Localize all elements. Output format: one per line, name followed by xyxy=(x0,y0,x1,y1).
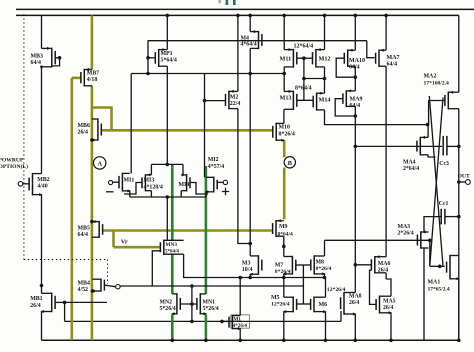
svg-text:Cc1: Cc1 xyxy=(439,201,449,207)
svg-text:M13: M13 xyxy=(280,95,292,102)
svg-text:12*26/4: 12*26/4 xyxy=(271,302,290,308)
svg-text:POWRUP: POWRUP xyxy=(0,158,24,164)
svg-text:12*26/4: 12*26/4 xyxy=(327,287,346,293)
svg-text:MA1: MA1 xyxy=(428,280,441,286)
svg-text:64/4: 64/4 xyxy=(350,103,361,109)
svg-text:MP1: MP1 xyxy=(161,51,173,57)
svg-text:22/4: 22/4 xyxy=(230,101,241,107)
svg-text:MA7: MA7 xyxy=(387,55,400,61)
svg-text:5*26/4: 5*26/4 xyxy=(160,306,176,312)
svg-text:MB6: MB6 xyxy=(78,123,90,129)
svg-text:MA8: MA8 xyxy=(349,294,362,300)
svg-text:MN1: MN1 xyxy=(203,300,216,306)
svg-text:10/4: 10/4 xyxy=(242,267,253,273)
svg-text:M6: M6 xyxy=(319,302,328,308)
svg-text:2*64/4: 2*64/4 xyxy=(403,166,419,172)
svg-text:4*64/4: 4*64/4 xyxy=(241,42,257,48)
svg-text:MB1: MB1 xyxy=(30,296,42,302)
svg-text:64/4: 64/4 xyxy=(31,60,42,66)
svg-text:5*64/4: 5*64/4 xyxy=(161,58,177,64)
svg-text:M1: M1 xyxy=(233,317,241,323)
svg-text:MN2: MN2 xyxy=(160,300,173,306)
svg-text:4/18: 4/18 xyxy=(87,77,98,83)
svg-text:8*64/4: 8*64/4 xyxy=(278,231,294,237)
svg-text:OUT: OUT xyxy=(458,174,471,180)
svg-text:MB2: MB2 xyxy=(37,177,49,183)
svg-text:M2: M2 xyxy=(230,95,239,101)
svg-text:M7: M7 xyxy=(275,262,284,268)
svg-text:MA4: MA4 xyxy=(403,160,416,166)
svg-text:M10: M10 xyxy=(279,125,291,131)
svg-text:26/4: 26/4 xyxy=(378,268,388,274)
svg-text:26/4: 26/4 xyxy=(349,300,359,306)
svg-text:MA6: MA6 xyxy=(378,261,391,267)
svg-text:5*64/4: 5*64/4 xyxy=(165,250,179,255)
svg-text:M14: M14 xyxy=(319,97,331,104)
svg-text:MI1: MI1 xyxy=(124,178,135,184)
svg-text:MI3: MI3 xyxy=(144,178,155,184)
svg-text:8*26/4: 8*26/4 xyxy=(275,269,291,275)
svg-text:MI4: MI4 xyxy=(179,182,190,188)
svg-text:64/4: 64/4 xyxy=(349,65,360,71)
svg-text:M5: M5 xyxy=(271,295,280,301)
svg-text:17*160/2.4: 17*160/2.4 xyxy=(424,81,450,87)
svg-text:5*26/4: 5*26/4 xyxy=(203,306,219,312)
svg-text:MI2: MI2 xyxy=(208,157,219,163)
svg-text:8*64/4: 8*64/4 xyxy=(295,86,312,92)
svg-text:M12: M12 xyxy=(319,56,331,63)
svg-text:A: A xyxy=(97,161,102,168)
svg-text:17*65/2.4: 17*65/2.4 xyxy=(428,287,450,293)
svg-text:M3: M3 xyxy=(242,260,251,266)
svg-text:64/4: 64/4 xyxy=(387,62,398,68)
svg-text:MB4: MB4 xyxy=(78,281,90,287)
svg-text:MB7: MB7 xyxy=(87,71,99,77)
svg-text:8*26/4: 8*26/4 xyxy=(316,266,332,272)
svg-text:Vr: Vr xyxy=(121,239,128,246)
svg-text:4*128/4: 4*128/4 xyxy=(144,184,163,190)
svg-text:26/4: 26/4 xyxy=(78,130,89,136)
svg-text:2*26/4: 2*26/4 xyxy=(398,231,414,237)
svg-text:MB3: MB3 xyxy=(31,54,43,60)
svg-text:MB5: MB5 xyxy=(78,226,90,232)
svg-text:8*26/4: 8*26/4 xyxy=(279,131,295,137)
svg-text:12*64/4: 12*64/4 xyxy=(294,44,314,50)
svg-text:M9: M9 xyxy=(279,224,288,230)
svg-text:MA2: MA2 xyxy=(424,74,437,80)
svg-text:M8: M8 xyxy=(316,259,325,265)
svg-text:MA3: MA3 xyxy=(398,224,411,230)
svg-text:M11: M11 xyxy=(280,56,292,63)
svg-text:MN3: MN3 xyxy=(166,242,178,248)
svg-text:M4: M4 xyxy=(241,35,250,41)
svg-text:MA9: MA9 xyxy=(350,97,363,103)
svg-text:MA5: MA5 xyxy=(383,299,396,305)
svg-text:4/40: 4/40 xyxy=(37,183,48,189)
svg-text:26/4: 26/4 xyxy=(383,305,393,311)
svg-text:4*57/4: 4*57/4 xyxy=(208,164,224,170)
svg-text:OPTION(L): OPTION(L) xyxy=(0,163,28,170)
svg-text:MA10: MA10 xyxy=(349,58,365,64)
svg-text:4/52: 4/52 xyxy=(78,287,89,293)
svg-text:26/4: 26/4 xyxy=(30,303,41,309)
svg-text:Cc3: Cc3 xyxy=(439,161,449,167)
svg-text:64/4: 64/4 xyxy=(78,232,89,238)
